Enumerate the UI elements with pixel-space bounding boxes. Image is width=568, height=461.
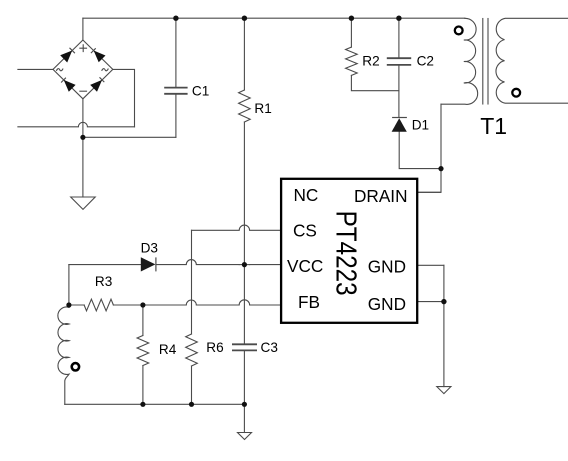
node dot D3 anode / R3 [66,302,71,307]
node dot bridge output [80,135,85,140]
svg-text:DRAIN: DRAIN [354,186,407,206]
svg-text:C3: C3 [261,340,278,355]
resistor R3 [84,299,113,311]
diode D3 [141,257,156,271]
wire FB row with hops [143,300,281,305]
wire AC input 1 [18,68,53,70]
wire CS pin row [192,225,282,230]
bridge diode 3 (bottom-left) [64,80,76,92]
svg-text:T1: T1 [480,113,507,139]
wire bridge bottom vertex down to ground [82,99,84,197]
bridge diode 4 (bottom-right) [90,80,102,92]
wire GND pin 1 row [417,264,444,266]
svg-text:C2: C2 [417,54,434,69]
T1 secondary phase dot [512,89,520,97]
inductor phase dot [72,363,79,370]
wire R1/C3 vertical trunk [243,122,245,344]
svg-text:PT4223: PT4223 [330,211,362,296]
ground symbol GND pins [437,387,451,394]
svg-text:C1: C1 [192,84,209,99]
wire R2 bottom to C2 line [351,75,399,90]
wire R3 left lead [69,304,84,306]
node dot top rail R1 [242,16,247,21]
wire T1 primary bottom to drain node to DRAIN pin [417,104,441,192]
wire VCC row through R1 junction [239,264,249,266]
T1 primary phase dot [455,27,463,35]
wire C3 bottom lead [243,351,245,405]
wire R4 bottom lead [142,366,144,405]
ground symbol bridge [71,197,96,209]
node dot R3/R4/FB junction [140,302,145,307]
resistor R2 [346,47,358,75]
node dot top rail C1 [173,16,178,21]
svg-text:GND: GND [368,294,406,314]
wire bridge top vertex to top rail [82,18,84,40]
transformer T1 core [482,19,484,105]
wire bottom rail [65,403,245,405]
svg-text:R3: R3 [95,274,112,289]
resistor R1 [239,90,251,122]
inductor L1 winding [58,305,69,404]
wire R3 right lead [113,304,142,306]
ground symbol bottom rail [238,433,252,440]
node dot top rail C2 [396,16,401,21]
svg-text:GND: GND [368,257,406,277]
wire AC input 2 with hop over bridge output [18,122,135,127]
transformer T1 secondary winding [496,18,568,103]
node dot bottom rail C3 [242,402,247,407]
wire DRAIN pin stub [417,191,440,193]
wire bridge right vertex to AC2 [113,69,135,126]
bridge diode 2 (top-right) [94,51,106,63]
bridge diode 1 (top-left) [60,51,105,92]
wire R6 vertical trunk [191,230,193,334]
node dot VCC/R1 junction [242,262,247,267]
wire bottom rail to ground [243,404,245,432]
bridge diode 3 cathode bar [61,78,66,83]
bridge diode 2 cathode bar [91,48,96,53]
svg-text:CS: CS [293,221,317,241]
bridge rectifier diamond [53,40,113,99]
svg-text:R2: R2 [362,54,379,69]
transformer T1 primary winding [441,18,478,104]
capacitor C2 leads [398,18,400,57]
node dot bottom rail R4 [140,402,145,407]
node dot top rail R2 [349,16,354,21]
bridge plus mark [79,44,87,52]
svg-text:VCC: VCC [287,256,323,276]
wire R6 bottom lead [191,366,193,404]
node dot drain junction [438,166,443,171]
wire GND pin 2 row [417,301,444,303]
IC U1 body PT4223 [281,179,417,323]
capacitor C1 plates [164,58,411,350]
bridge AC squiggle right [102,69,109,71]
svg-text:R4: R4 [159,342,177,357]
resistor R4 [137,336,149,366]
capacitor C1 leads [175,18,177,87]
wire D1 anode down to drain node [399,132,441,169]
capacitor C3 plates [232,343,257,345]
wire D3 anode to R3 node [68,265,70,305]
capacitor C2 plates [387,57,411,59]
svg-text:R1: R1 [254,101,271,116]
wire R1 top lead [243,18,245,90]
node dot GND junction [441,299,446,304]
resistor R6 [186,334,198,366]
diode D1 [392,118,407,132]
wire D3/VCC row [69,264,141,266]
node dot bottom rail R6 [189,402,194,407]
wire R4 top lead [142,305,144,336]
wire GND trunk to ground [443,265,445,386]
svg-text:D3: D3 [141,240,158,255]
wire bridge output to C1 bottom [83,136,176,138]
svg-text:NC: NC [294,185,319,205]
bridge AC squiggle left [56,69,63,71]
svg-text:D1: D1 [412,117,429,132]
bridge minus mark [79,90,87,92]
bridge diode 1 cathode bar [70,48,75,53]
svg-text:FB: FB [298,292,320,312]
wire top rail [83,17,465,19]
bridge diode 4 cathode bar [100,77,105,82]
wire R2 top lead [350,18,352,47]
svg-text:R6: R6 [206,340,223,355]
